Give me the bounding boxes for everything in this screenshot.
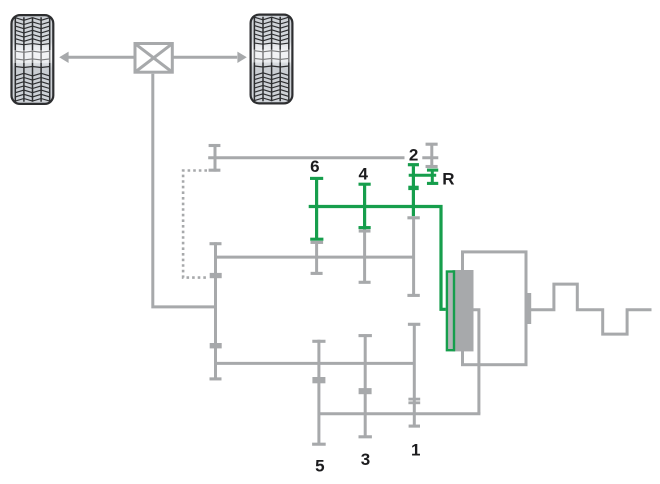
reverse gear (green) xyxy=(427,170,438,185)
gear 4 driven gear xyxy=(359,231,371,283)
reverse take-off line (green) xyxy=(409,174,437,177)
svg-text:5: 5 xyxy=(315,456,324,475)
gear 1 label xyxy=(411,441,420,460)
final drive gear xyxy=(210,242,222,379)
svg-text:3: 3 xyxy=(361,450,370,469)
svg-text:6: 6 xyxy=(310,157,319,176)
input shaft (top, odd/outer) xyxy=(208,156,438,159)
gear 5 pair xyxy=(312,340,326,445)
right drive arrow xyxy=(173,52,247,63)
gear 6 driving gear (green) xyxy=(310,177,323,240)
gear 2 driving gear (green) xyxy=(408,164,419,217)
dotted hollow-shaft link xyxy=(183,171,207,278)
gear 6 label xyxy=(310,157,319,176)
gear 3 pair xyxy=(359,334,372,437)
reverse/bottom shaft xyxy=(319,412,481,415)
clutch pack (gray) xyxy=(453,270,474,351)
gear 2 driven gear xyxy=(407,218,419,296)
gear 6 driven gear xyxy=(311,242,324,273)
upper output shaft xyxy=(214,256,415,259)
gear 1 pair xyxy=(408,323,420,427)
gear 4 driving gear (green) xyxy=(359,183,371,229)
differential box xyxy=(135,44,172,73)
gear 3 label xyxy=(361,450,370,469)
lower output shaft xyxy=(214,362,414,365)
right tire (wheel) xyxy=(251,15,293,104)
reverse label R xyxy=(442,169,454,188)
svg-text:R: R xyxy=(442,169,454,188)
gear 2 engaged synchronizer (green block) xyxy=(408,186,418,190)
svg-text:2: 2 xyxy=(409,146,418,165)
svg-text:1: 1 xyxy=(411,441,420,460)
input pinion gear xyxy=(209,145,221,172)
engaged input shaft (green, even gears) xyxy=(309,207,446,310)
engaged clutch disc (green) xyxy=(447,272,454,351)
clutch housing box xyxy=(463,252,527,365)
gear 5 label xyxy=(315,456,324,475)
gear 4 label xyxy=(358,165,368,184)
gear 2 label xyxy=(409,146,418,165)
left tire (wheel) xyxy=(12,15,54,104)
clutch output elbow to reverse shaft xyxy=(474,310,479,414)
reverse idler gear xyxy=(426,143,438,167)
differential to final-drive link xyxy=(153,74,216,307)
engine crankshaft xyxy=(531,284,652,334)
flywheel tab xyxy=(527,293,532,324)
left drive arrow xyxy=(59,52,134,63)
svg-text:4: 4 xyxy=(358,165,368,184)
